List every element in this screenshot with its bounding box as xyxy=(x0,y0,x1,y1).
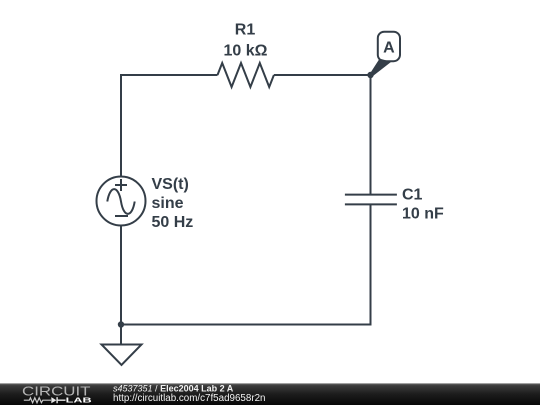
svg-text:sine: sine xyxy=(152,195,184,212)
CircuitLab logo resistor zigzag xyxy=(24,398,51,403)
wire C1 bottom to bottom-right corner and bottom horizontal to ground node xyxy=(121,204,371,324)
svg-text:http://circuitlab.com/c7f5ad96: http://circuitlab.com/c7f5ad9658r2n xyxy=(113,393,265,404)
ground triangle xyxy=(102,345,142,366)
capacitor C1 top plate xyxy=(345,194,397,196)
node A flag tail xyxy=(370,59,392,77)
svg-text:10 kΩ: 10 kΩ xyxy=(224,43,268,60)
junction dot at node A xyxy=(367,72,373,78)
VS plus sign xyxy=(115,179,127,191)
wire VS bottom to ground node xyxy=(120,226,122,325)
footer bar xyxy=(0,383,540,405)
junction dot at ground node xyxy=(118,321,124,327)
VS sine glyph xyxy=(107,189,134,214)
svg-text:10 nF: 10 nF xyxy=(402,206,444,223)
svg-text:s4537351 / Elec2004 Lab 2 A: s4537351 / Elec2004 Lab 2 A xyxy=(113,383,234,393)
svg-text:LAB: LAB xyxy=(66,397,92,404)
svg-text:CIRCUIT: CIRCUIT xyxy=(22,383,91,398)
node A flag box xyxy=(378,32,400,62)
capacitor C1 bottom plate xyxy=(345,203,397,205)
VS minus sign xyxy=(115,215,128,217)
svg-text:C1: C1 xyxy=(402,187,423,204)
wire R1 right lead to node A corner xyxy=(274,74,371,76)
svg-text:50 Hz: 50 Hz xyxy=(152,214,194,231)
CircuitLab logo diode bar xyxy=(57,397,65,403)
wire top-left horizontal (node from VS+ to R1 left lead) xyxy=(121,75,218,177)
ground stub wire xyxy=(120,325,122,345)
CircuitLab logo diode arrow xyxy=(51,397,56,403)
svg-text:VS(t): VS(t) xyxy=(152,176,189,193)
svg-text:R1: R1 xyxy=(235,21,256,38)
voltage source VS circle xyxy=(97,177,146,226)
wire right vertical (node A down to C1 top plate) xyxy=(370,75,372,195)
svg-text:A: A xyxy=(383,39,395,56)
resistor R1 xyxy=(218,63,274,87)
